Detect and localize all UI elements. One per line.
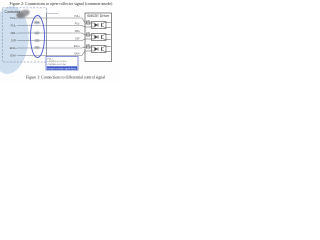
svg-text:+5V(PUL+)+CC-Drl: +5V(PUL+)+CC-Drl xyxy=(47,60,66,63)
svg-text:PUL+: PUL+ xyxy=(74,16,80,18)
svg-text:Controller: Controller xyxy=(5,10,21,14)
ellipse annotation dark blue xyxy=(31,16,45,58)
opto U1 transistor xyxy=(100,23,102,27)
opto U2 transistor xyxy=(100,35,102,39)
controller dashed box xyxy=(3,8,47,62)
component smudge row 3 xyxy=(34,32,39,34)
popup selected line xyxy=(47,66,77,69)
wire ENA- xyxy=(18,51,86,56)
opto U2 group xyxy=(85,33,111,41)
opto U1 LED xyxy=(95,23,98,27)
svg-text:DIR+: DIR+ xyxy=(75,31,81,33)
opto U1 input resistor 270 xyxy=(86,22,90,24)
opto U1 right stubs xyxy=(104,22,111,24)
controller box right edge (solid) xyxy=(46,13,48,62)
opto U3 input resistor 270 xyxy=(86,46,90,48)
wire DIR+ xyxy=(18,33,86,35)
svg-text:+5V(DIR+)+CC-Drl: +5V(DIR+)+CC-Drl xyxy=(47,63,66,66)
opto U2 box xyxy=(92,34,107,41)
svg-text:connect to active signal drive: connect to active signal driver xyxy=(47,67,76,70)
opto U2 input resistor 270 xyxy=(86,34,90,36)
wire PUL- xyxy=(18,26,86,28)
svg-text:PUL-: PUL- xyxy=(75,24,80,26)
driver box xyxy=(85,13,112,62)
svg-text:ENA+: ENA+ xyxy=(74,45,81,48)
svg-text:PUL-: PUL- xyxy=(11,24,17,28)
opto U1 box xyxy=(92,22,107,29)
highlight ellipse (large pale blue annotation) xyxy=(0,4,31,75)
opto U2 pin wires xyxy=(85,34,95,36)
svg-text:PUL+: PUL+ xyxy=(10,16,17,20)
svg-text:DIR-: DIR- xyxy=(75,39,80,41)
svg-text:ENA-: ENA- xyxy=(75,53,81,56)
opto U3 pin wires xyxy=(85,46,95,48)
component smudge row 4 xyxy=(34,39,39,42)
opto U2 right stubs xyxy=(104,34,111,36)
opto U3 transistor xyxy=(100,47,102,51)
wire ENA+ xyxy=(18,47,86,48)
opto U1 pin wires xyxy=(85,22,95,24)
svg-text:DIR-: DIR- xyxy=(11,39,17,43)
svg-text:SM02E Driver: SM02E Driver xyxy=(87,14,110,18)
wire DIR- xyxy=(18,39,86,41)
component smudge row 1 xyxy=(34,21,40,24)
opto U3 right stubs xyxy=(104,46,111,48)
svg-text:DIR+: DIR+ xyxy=(11,31,18,35)
wire PUL+ xyxy=(18,18,86,23)
opto U2 LED xyxy=(95,35,98,39)
popup note box xyxy=(46,57,78,71)
component smudge row 5 xyxy=(34,46,39,49)
opto U1 group xyxy=(85,21,111,29)
svg-text:Figure 1: Connections to diffe: Figure 1: Connections to differential co… xyxy=(26,75,105,79)
opto U3 LED xyxy=(95,47,98,51)
opto U3 box xyxy=(92,46,107,53)
page background xyxy=(0,0,120,83)
svg-text:Figure 2: Connections to open-: Figure 2: Connections to open-collector … xyxy=(10,1,114,6)
stray wire at top xyxy=(47,12,59,14)
svg-text:ENA+: ENA+ xyxy=(10,46,18,50)
opto U3 group xyxy=(85,45,111,53)
gray cursor blob xyxy=(15,8,31,20)
svg-text:ENA-: ENA- xyxy=(10,54,17,58)
